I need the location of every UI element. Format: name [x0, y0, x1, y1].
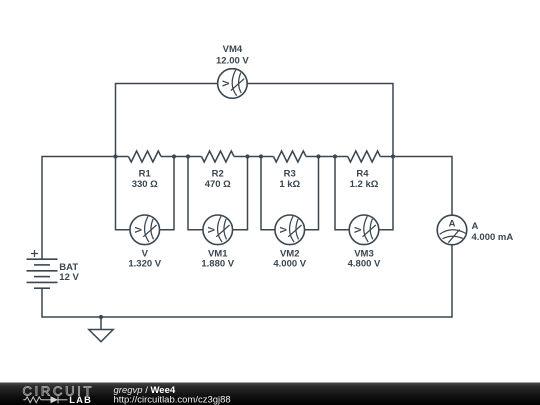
svg-text:R2: R2 — [212, 169, 224, 180]
battery BAT — [27, 259, 58, 288]
svg-text:1 kΩ: 1 kΩ — [279, 179, 300, 190]
battery plus sign — [31, 250, 38, 257]
svg-text:VM4: VM4 — [223, 44, 243, 55]
wire: V loop under R1 — [116, 157, 175, 230]
svg-text:470 Ω: 470 Ω — [205, 179, 231, 190]
wire: VM1 loop under R2 — [188, 157, 248, 230]
svg-text:V: V — [207, 226, 218, 233]
wire: top segment between R3 and R4 — [306, 156, 348, 158]
svg-text:R1: R1 — [139, 169, 152, 180]
svg-text:12.00 V: 12.00 V — [216, 55, 249, 66]
resistor R3 — [273, 151, 306, 162]
wire: VM4 loop (up, across top, down) — [116, 84, 394, 157]
svg-text:R3: R3 — [284, 169, 296, 180]
resistor R1 — [128, 151, 161, 162]
wire: left vertical + top wire first segment — [42, 157, 128, 260]
svg-text:http://circuitlab.com/cz3gj88: http://circuitlab.com/cz3gj88 — [114, 394, 231, 405]
svg-text:330 Ω: 330 Ω — [132, 179, 158, 190]
node R2 left — [186, 154, 190, 158]
svg-text:1.880 V: 1.880 V — [201, 259, 234, 270]
node R4 right / VM4 right — [391, 154, 395, 158]
voltmeter V — [130, 215, 160, 245]
svg-text:V: V — [134, 226, 145, 233]
svg-text:4.000 mA: 4.000 mA — [472, 232, 514, 243]
svg-text:A: A — [472, 221, 479, 232]
svg-text:A: A — [449, 218, 456, 229]
wire: top segment between R1 and R2 — [161, 156, 201, 158]
node R3 right — [316, 154, 320, 158]
voltmeter VM1 — [203, 215, 233, 245]
node R4 left — [333, 154, 337, 158]
svg-text:1.2 kΩ: 1.2 kΩ — [350, 179, 379, 190]
wire: VM3 loop under R4 — [335, 157, 393, 230]
svg-text:4.800 V: 4.800 V — [348, 259, 381, 270]
svg-text:V: V — [279, 226, 290, 233]
ground — [89, 317, 113, 342]
wire: top segment between R2 and R3 — [234, 156, 273, 158]
resistor R4 — [348, 151, 381, 162]
node: junction dots on main wire — [99, 154, 395, 319]
svg-text:V: V — [353, 226, 364, 233]
wire: top right segment + right vertical + bottom wire + left bottom vertical — [42, 157, 452, 318]
svg-text:12 V: 12 V — [59, 272, 79, 283]
svg-text:1.320 V: 1.320 V — [128, 259, 161, 270]
node ground — [99, 315, 103, 319]
voltmeter VM3 — [349, 215, 379, 245]
resistor R2 — [201, 151, 234, 162]
svg-text:R4: R4 — [356, 169, 369, 180]
svg-text:LAB: LAB — [69, 395, 92, 405]
voltmeter VM4 — [218, 69, 248, 99]
voltmeter VM2 — [275, 215, 305, 245]
ammeter A — [437, 215, 467, 245]
node R1 left / VM4 left — [113, 154, 117, 158]
node R1 right — [172, 154, 176, 158]
svg-text:V: V — [221, 80, 232, 87]
wire: VM2 loop under R3 — [261, 157, 319, 230]
node R3 left — [259, 154, 263, 158]
svg-text:4.000 V: 4.000 V — [273, 259, 306, 270]
node R2 right — [245, 154, 249, 158]
